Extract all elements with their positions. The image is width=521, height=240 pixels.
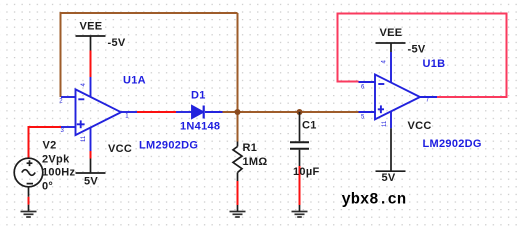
wire: brown horizontal main net bbox=[223, 111, 359, 113]
op-amp U1B bbox=[359, 52, 438, 128]
svg-text:R1: R1 bbox=[243, 142, 258, 154]
wire: red V2 to U1A plus input bbox=[29, 127, 62, 158]
svg-text:U1B: U1B bbox=[423, 58, 446, 70]
svg-text:VEE: VEE bbox=[380, 27, 403, 39]
svg-text:C1: C1 bbox=[302, 120, 317, 132]
ground (C1) bbox=[292, 205, 308, 217]
wire: red C1 to ground bbox=[299, 166, 301, 205]
wire: brown stub to R1 bbox=[237, 112, 239, 142]
capacitor C1 bbox=[290, 112, 309, 166]
VEE rail U1B bbox=[376, 43, 406, 52]
op-amp U1A bbox=[61, 77, 137, 151]
svg-text:2Vpk: 2Vpk bbox=[42, 154, 70, 166]
svg-text:U1A: U1A bbox=[123, 75, 146, 87]
svg-text:5V: 5V bbox=[84, 176, 98, 188]
wire: brown right vertical into node bbox=[237, 13, 239, 112]
svg-text:1N4148: 1N4148 bbox=[180, 121, 220, 133]
svg-text:11: 11 bbox=[81, 135, 87, 142]
svg-text:ybx8.cn: ybx8.cn bbox=[342, 191, 407, 209]
wire: red V2 lower lead bbox=[28, 197, 30, 205]
wire: brown feedback loop U1A (top) bbox=[61, 13, 238, 97]
svg-text:100Hz: 100Hz bbox=[42, 167, 75, 179]
svg-text:V2: V2 bbox=[43, 140, 57, 152]
node junction at C1 bbox=[297, 109, 303, 115]
svg-text:VCC: VCC bbox=[408, 120, 432, 132]
svg-text:0°: 0° bbox=[42, 181, 53, 193]
svg-text:1MΩ: 1MΩ bbox=[243, 156, 268, 168]
svg-text:11: 11 bbox=[382, 120, 388, 127]
ground (R1) bbox=[230, 205, 246, 217]
node junction at R1 bbox=[235, 109, 241, 115]
svg-text:VEE: VEE bbox=[80, 21, 103, 33]
svg-text:LM2902DG: LM2902DG bbox=[423, 138, 482, 150]
resistor R1 bbox=[233, 142, 242, 182]
wire: red U1A output to diode bbox=[137, 111, 176, 113]
ground (V2) bbox=[21, 212, 37, 218]
wire: red U1A VCC segment bbox=[90, 151, 92, 159]
svg-text:10µF: 10µF bbox=[293, 166, 320, 178]
VCC rail U1B bbox=[376, 128, 406, 171]
wire: red U1A VEE segment bbox=[90, 51, 92, 78]
svg-text:-5V: -5V bbox=[408, 44, 426, 56]
svg-text:5V: 5V bbox=[382, 172, 396, 184]
wire: pink U1B feedback rectangle bbox=[338, 14, 507, 98]
svg-text:D1: D1 bbox=[191, 90, 206, 102]
diode D1 bbox=[176, 106, 223, 119]
source V2 bbox=[14, 158, 43, 211]
svg-text:-5V: -5V bbox=[108, 37, 126, 49]
svg-text:LM2902DG: LM2902DG bbox=[139, 140, 198, 152]
VCC rail U1A bbox=[76, 159, 106, 174]
VEE rail U1A bbox=[76, 36, 106, 51]
wire: red R1 to ground bbox=[237, 181, 239, 205]
svg-text:VCC: VCC bbox=[108, 143, 132, 155]
